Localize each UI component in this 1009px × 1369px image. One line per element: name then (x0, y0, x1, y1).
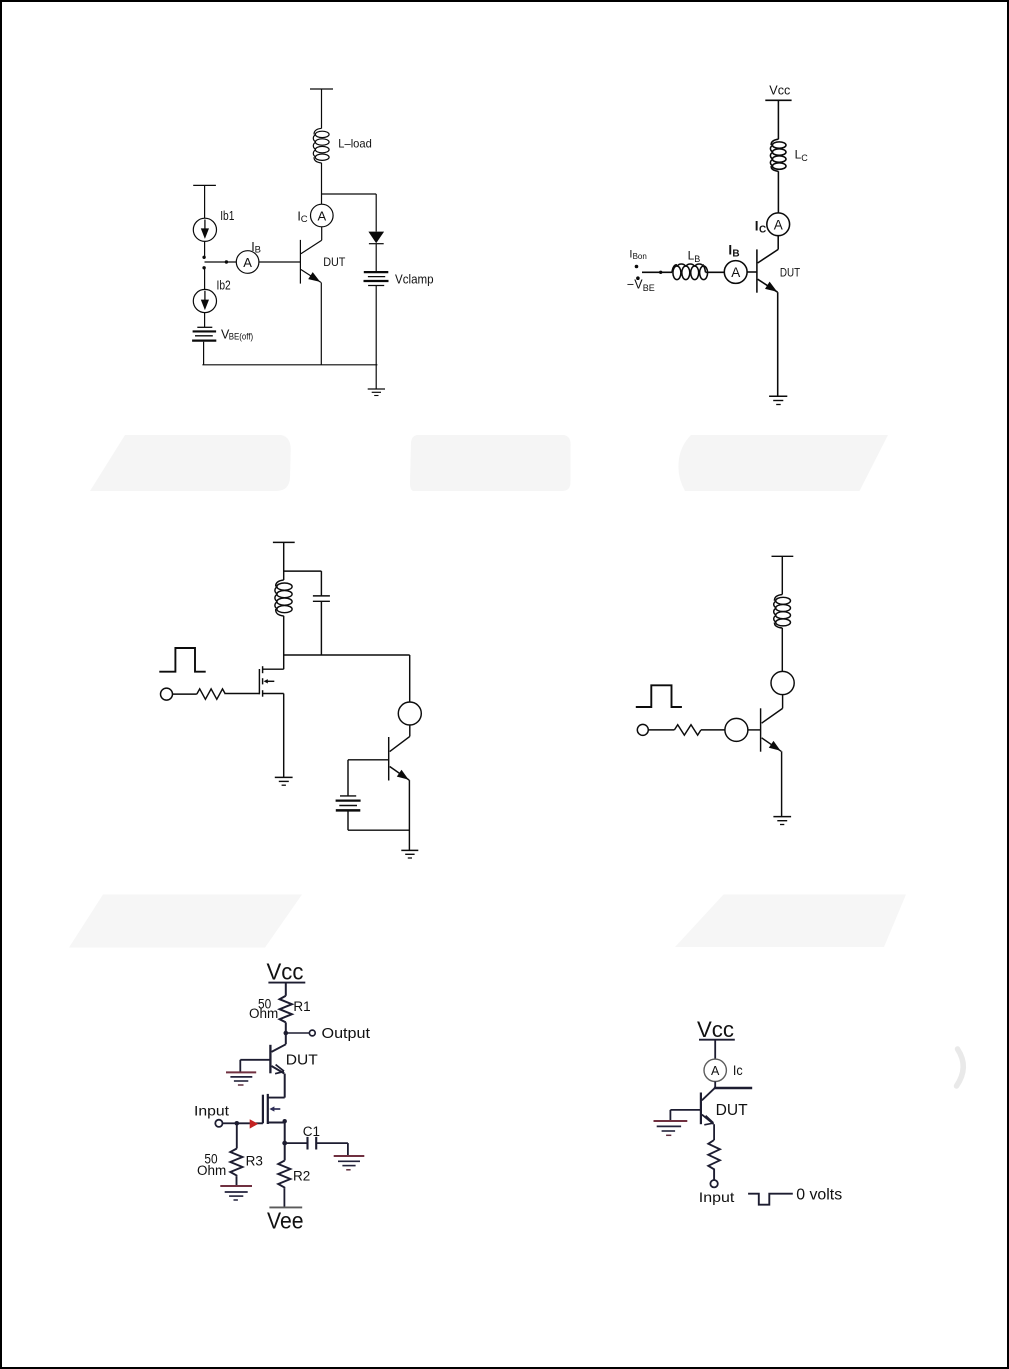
wire (777, 236, 779, 250)
base wire (670, 1109, 701, 1111)
svg-text:Ohm: Ohm (249, 1006, 278, 1021)
wire (777, 100, 779, 139)
junction dot mosfet source (283, 1119, 287, 1123)
svg-text:DUT: DUT (323, 255, 346, 269)
wire (321, 89, 323, 129)
ground circuit4 (773, 817, 791, 825)
wire (285, 983, 287, 996)
wire (748, 729, 761, 731)
wire battery branch (347, 760, 349, 796)
wire (283, 542, 285, 580)
ammeter IC (A) circuit2 (767, 213, 790, 236)
ground circuit6 (654, 1121, 688, 1135)
ground circuit5 R3 (220, 1186, 252, 1200)
red arrow on gate wire (250, 1119, 259, 1128)
svg-text:0 volts: 0 volts (796, 1187, 842, 1204)
ammeter IC (A) circuit1 (311, 204, 334, 227)
svg-text:Ib2: Ib2 (217, 278, 231, 292)
diode (368, 232, 384, 244)
watermark band2 left (69, 895, 302, 948)
svg-text:Ohm: Ohm (197, 1163, 226, 1178)
svg-text:Vcc: Vcc (267, 959, 304, 985)
wire (283, 616, 285, 655)
thick wire battery to bus (203, 342, 205, 365)
current source circle circuit3 (398, 702, 421, 725)
battery circuit3 (336, 796, 361, 811)
svg-text:C1: C1 (303, 1124, 320, 1139)
svg-text:Output: Output (322, 1026, 371, 1042)
output terminal circle (309, 1030, 315, 1036)
gate wire (237, 1122, 263, 1124)
wire down (347, 1143, 349, 1156)
bottom wire (348, 829, 409, 831)
junction node dot (284, 1031, 289, 1036)
inductor LB horizontal (672, 264, 708, 280)
wire (204, 268, 206, 290)
junction wire row (284, 654, 410, 656)
watermark band2 right (675, 895, 906, 948)
Vcc underline circuit6 (699, 1039, 735, 1041)
svg-text:Vcc: Vcc (769, 82, 790, 97)
wire (701, 729, 725, 731)
wire (204, 313, 206, 327)
Vee bar (269, 1206, 302, 1208)
wire (642, 271, 672, 273)
svg-text:R1: R1 (293, 999, 310, 1014)
wire (781, 628, 783, 672)
resistor R2 (278, 1161, 290, 1189)
svg-text:A: A (731, 265, 740, 280)
svg-text:B: B (732, 248, 739, 259)
collector bar wire thick (714, 1087, 752, 1090)
svg-text:Vclamp: Vclamp (395, 273, 434, 287)
svg-text:Input: Input (194, 1103, 229, 1119)
wire R3 branch (236, 1123, 238, 1148)
svg-text:B: B (694, 254, 700, 264)
wire (285, 1022, 287, 1033)
ground circuit5 C1 (334, 1156, 365, 1170)
inductor circuit3 (275, 580, 292, 616)
node dot (202, 256, 205, 259)
resistor circuit4 (674, 725, 701, 735)
wire (347, 812, 349, 831)
wire (321, 227, 323, 240)
svg-text:Ib1: Ib1 (220, 209, 234, 223)
node dot on base wire (225, 260, 228, 263)
emitter wire (713, 1124, 715, 1140)
current source Ib1 (193, 218, 216, 241)
gate wire (225, 693, 259, 695)
wire R2 branch (284, 1143, 286, 1160)
svg-text:Vee: Vee (267, 1208, 304, 1234)
ammeter IB (A) circuit1 (236, 251, 259, 274)
ground circuit5 base (226, 1072, 256, 1085)
wire (714, 1082, 716, 1089)
wire (204, 185, 206, 218)
input terminal circle circuit4 (637, 724, 648, 735)
wire to C1 (285, 1142, 307, 1144)
wire (204, 241, 206, 257)
base wire (747, 271, 757, 273)
watermark band1 middle (410, 435, 571, 491)
battery VBE(off) (192, 327, 216, 340)
wire (316, 1142, 348, 1144)
wire (236, 1177, 238, 1186)
emitter wire (781, 751, 783, 816)
power bar top circuit3 (273, 541, 295, 543)
capacitor branch wire (320, 571, 322, 596)
source wire down (283, 694, 285, 778)
wire (648, 729, 674, 731)
transistor DUT circuit5 (270, 1033, 285, 1074)
svg-text:L–load: L–load (338, 137, 372, 151)
emitter wire (284, 1074, 286, 1098)
resistor circuit3 (197, 689, 226, 699)
bottom bus wire (202, 364, 377, 366)
battery Vclamp (364, 272, 389, 285)
MOSFET circuit5 (263, 1094, 285, 1124)
base wire thick (348, 759, 389, 761)
wire (409, 725, 411, 736)
ground circuit3 lower (401, 850, 418, 858)
svg-text:C: C (801, 153, 808, 163)
ammeter A circuit6 (704, 1059, 726, 1081)
node dot (202, 266, 205, 269)
transistor circuit3 (389, 736, 410, 780)
svg-text:A: A (317, 208, 326, 223)
wire (375, 286, 377, 390)
svg-text:DUT: DUT (780, 266, 801, 280)
svg-text:C: C (301, 214, 308, 225)
wire junction to capacitor branch (284, 570, 322, 572)
resistor R3 (230, 1149, 242, 1177)
resistor R1 (280, 996, 292, 1023)
input terminal circle circuit5 (215, 1120, 222, 1127)
resistor circuit6 (708, 1140, 720, 1180)
emitter wire thick (408, 780, 410, 850)
wire diode branch (375, 194, 377, 232)
svg-text:BE: BE (643, 283, 655, 293)
ground circuit1 (368, 389, 385, 396)
svg-text:Vcc: Vcc (697, 1017, 734, 1042)
pulse symbol circuit3 (159, 648, 205, 672)
wire (283, 1189, 285, 1207)
inductor L-load (313, 128, 329, 163)
wire (782, 695, 784, 709)
transistor DUT circuit6 (701, 1088, 715, 1125)
wire (375, 244, 377, 272)
inductor LC (770, 139, 786, 171)
svg-text:R2: R2 (293, 1168, 310, 1183)
emitter wire down (320, 282, 322, 364)
output wire (286, 1032, 310, 1034)
wire right branch down (409, 655, 411, 702)
transistor circuit4 (761, 708, 783, 751)
svg-text:B: B (255, 244, 261, 255)
svg-text:−V: −V (627, 278, 643, 292)
inductor circuit4 (774, 595, 791, 629)
svg-text:I: I (755, 219, 759, 234)
watermark band1 right (678, 435, 888, 491)
svg-text:Ic: Ic (733, 1062, 743, 1078)
input terminal circle circuit3 (161, 688, 173, 700)
svg-text:A: A (711, 1064, 720, 1078)
pulse symbol circuit6 (748, 1194, 793, 1205)
wire (173, 693, 197, 695)
base wire (240, 1059, 270, 1061)
pulse symbol circuit4 (636, 685, 682, 707)
wire (706, 271, 725, 273)
emitter wire down (777, 292, 779, 396)
svg-text:BE(off): BE(off) (229, 332, 254, 342)
ground circuit3 mosfet (275, 777, 293, 785)
wire (222, 1122, 236, 1124)
ground circuit2 (769, 396, 787, 404)
svg-text:A: A (243, 255, 252, 270)
node dot on wire (659, 271, 662, 274)
current source circle circuit4 (771, 671, 794, 694)
transistor DUT (circuit 2) (757, 249, 778, 292)
svg-text:Input: Input (699, 1189, 735, 1205)
svg-text:C: C (759, 224, 766, 235)
watermark band1 left (90, 435, 291, 491)
wire step down (239, 1060, 241, 1072)
wire (777, 171, 779, 213)
wire (321, 163, 323, 204)
ammeter IB (A) circuit2 (724, 261, 747, 284)
wire step down (669, 1110, 671, 1121)
current source Ib2 (193, 289, 216, 312)
source wire down (284, 1123, 286, 1144)
power bar top circuit4 (772, 555, 794, 557)
wire junction to diode branch (322, 193, 377, 195)
junction node dot C1 (282, 1141, 287, 1146)
svg-text:A: A (774, 217, 783, 232)
capacitor circuit3 (313, 596, 330, 601)
wire (320, 601, 322, 655)
wire (714, 1040, 716, 1060)
transistor DUT (circuit 1) (300, 240, 321, 284)
watermark arc right (957, 1049, 964, 1086)
junction node dot input (235, 1121, 240, 1126)
node dot -VBE (636, 276, 640, 280)
power bar top (circuit 1 collector supply) (310, 88, 333, 90)
input terminal circle circuit6 (710, 1180, 717, 1187)
svg-text:Bon: Bon (633, 252, 647, 261)
base wire (205, 261, 237, 263)
power bar Vcc circuit2 (765, 99, 791, 101)
node dot IBon (635, 265, 639, 269)
svg-text:DUT: DUT (286, 1053, 318, 1069)
MOSFET circuit3 (259, 655, 283, 697)
power bar top (Ib1 branch) (193, 184, 216, 186)
base source circle circuit4 (725, 718, 748, 741)
svg-text:DUT: DUT (716, 1102, 749, 1119)
Vcc underline (268, 982, 305, 984)
wire (781, 556, 783, 594)
svg-text:R3: R3 (246, 1154, 263, 1169)
capacitor C1 (308, 1137, 317, 1150)
